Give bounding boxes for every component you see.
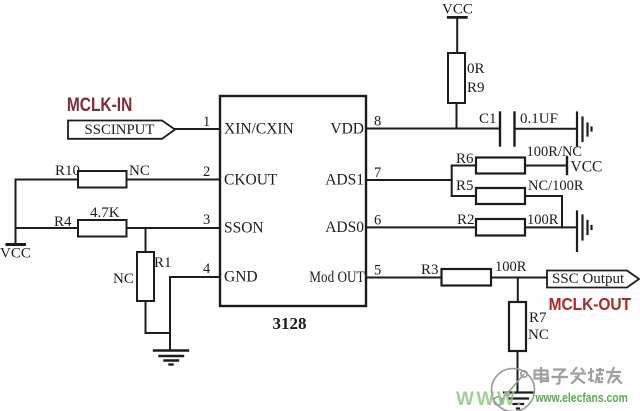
wire R1 bottom to ground corner (146, 301, 171, 333)
power VCC left bar (7, 243, 25, 246)
wire R10 left to VCC rail (16, 180, 79, 245)
wire pin4 GND to down-corner (170, 277, 220, 349)
resistor R1 body (vertical) (137, 252, 154, 301)
svg-text:R1: R1 (154, 255, 172, 271)
svg-text:NC: NC (113, 271, 134, 287)
svg-text:NC/100R: NC/100R (528, 178, 584, 194)
node junction R3/R7 (517, 278, 519, 303)
svg-text:R9: R9 (467, 80, 485, 96)
wire tee to R6 (452, 165, 476, 167)
svg-text:4.7K: 4.7K (90, 205, 120, 221)
ground bottom-left (154, 351, 188, 365)
svg-text:VCC: VCC (442, 2, 473, 18)
capacitor C1 plates (500, 113, 515, 146)
resistor R9 body (vertical) (448, 53, 465, 103)
svg-text:Mod OUT: Mod OUT (309, 269, 364, 286)
wire tee to R5 (452, 195, 476, 197)
resistor R7 body (vertical) (509, 302, 526, 351)
svg-text:100R: 100R (495, 259, 527, 275)
svg-text:R3: R3 (421, 262, 439, 278)
wire R5 right down to R2 rail (525, 196, 562, 227)
power VCC top bar (448, 16, 466, 19)
wire C1 to ground (515, 128, 578, 130)
svg-text:7: 7 (374, 165, 381, 181)
resistor R10 body (78, 171, 127, 188)
svg-text:R7: R7 (529, 310, 547, 326)
wire pin6 ADS0 to R2 (366, 226, 476, 228)
svg-text:R10: R10 (55, 163, 80, 179)
watermark logo circle (492, 369, 535, 411)
svg-text:WWW.: WWW. (456, 389, 524, 410)
svg-text:5: 5 (374, 263, 381, 279)
wire R4 left (16, 227, 79, 229)
resistor R2 body (476, 219, 525, 236)
wire ADS1 tee vertical (451, 166, 453, 197)
svg-text:2: 2 (203, 164, 210, 180)
svg-text:100R: 100R (527, 212, 559, 228)
connector SSCINPUT (68, 121, 175, 139)
svg-text:VCC: VCC (0, 246, 31, 262)
svg-text:XIN/CXIN: XIN/CXIN (224, 121, 294, 138)
wire R4 junction down to R1 (145, 228, 147, 252)
connector SSC Output (547, 271, 639, 288)
svg-text:VDD: VDD (330, 121, 364, 138)
wire VCC to R9 (456, 17, 458, 53)
svg-text:NC: NC (528, 327, 549, 343)
svg-text:C1: C1 (479, 111, 497, 127)
resistor R4 body (78, 220, 127, 237)
svg-text:VCC: VCC (571, 159, 603, 176)
svg-text:R4: R4 (54, 214, 72, 230)
resistor R3 body (442, 269, 492, 286)
ground right (sideways) (577, 212, 592, 252)
wire pin8 VDD to C1 (366, 128, 499, 130)
wire pin1 from SSCINPUT to XIN/CXIN (175, 128, 220, 130)
wire pin2 from R10 to CKOUT (127, 179, 221, 181)
ground bottom-right (504, 393, 533, 409)
svg-text:MCLK-IN: MCLK-IN (67, 93, 132, 115)
svg-text:8: 8 (374, 114, 381, 130)
svg-text:ADS1: ADS1 (325, 172, 364, 189)
wire R6 to VCC tick (525, 165, 567, 167)
svg-text:R5: R5 (456, 178, 474, 194)
ground top-right (sideways) (577, 113, 592, 146)
resistor R5 body (476, 188, 525, 204)
svg-text:4: 4 (203, 261, 211, 277)
svg-text:CKOUT: CKOUT (224, 172, 278, 189)
svg-text:SSCINPUT: SSCINPUT (85, 122, 155, 138)
wire R9 to VDD rail (456, 103, 458, 129)
svg-text:6: 6 (374, 213, 381, 229)
svg-text:www.elecfans.com: www.elecfans.com (535, 392, 628, 405)
wire R7 to ground (517, 351, 519, 392)
svg-text:NC: NC (129, 163, 150, 179)
svg-text:1: 1 (203, 114, 210, 130)
svg-text:GND: GND (224, 269, 258, 286)
svg-text:R2: R2 (457, 212, 475, 228)
wire pin5 Mod OUT to R3 (366, 277, 442, 279)
watermark text 电子发烧友 (simplified strokes) (535, 367, 623, 384)
wire R2 to ground (525, 226, 577, 228)
svg-text:R6: R6 (456, 151, 474, 167)
svg-text:ADS0: ADS0 (325, 219, 364, 236)
svg-text:MCLK-OUT: MCLK-OUT (549, 294, 632, 314)
op-amp U1 : IC 3128 body (220, 96, 366, 306)
svg-text:SSON: SSON (224, 220, 264, 237)
power VCC tick right (566, 157, 568, 174)
svg-text:SSC Output: SSC Output (552, 271, 625, 287)
svg-text:0.1UF: 0.1UF (520, 111, 558, 127)
svg-text:3: 3 (203, 212, 210, 228)
resistor R6 body (476, 158, 525, 174)
svg-text:3128: 3128 (273, 314, 307, 333)
wire pin7 ADS1 to tee (366, 179, 452, 181)
svg-text:0R: 0R (467, 61, 485, 77)
wire R3 to SSC connector (491, 277, 547, 279)
wire pin3 from R4 to SSON (127, 227, 221, 229)
